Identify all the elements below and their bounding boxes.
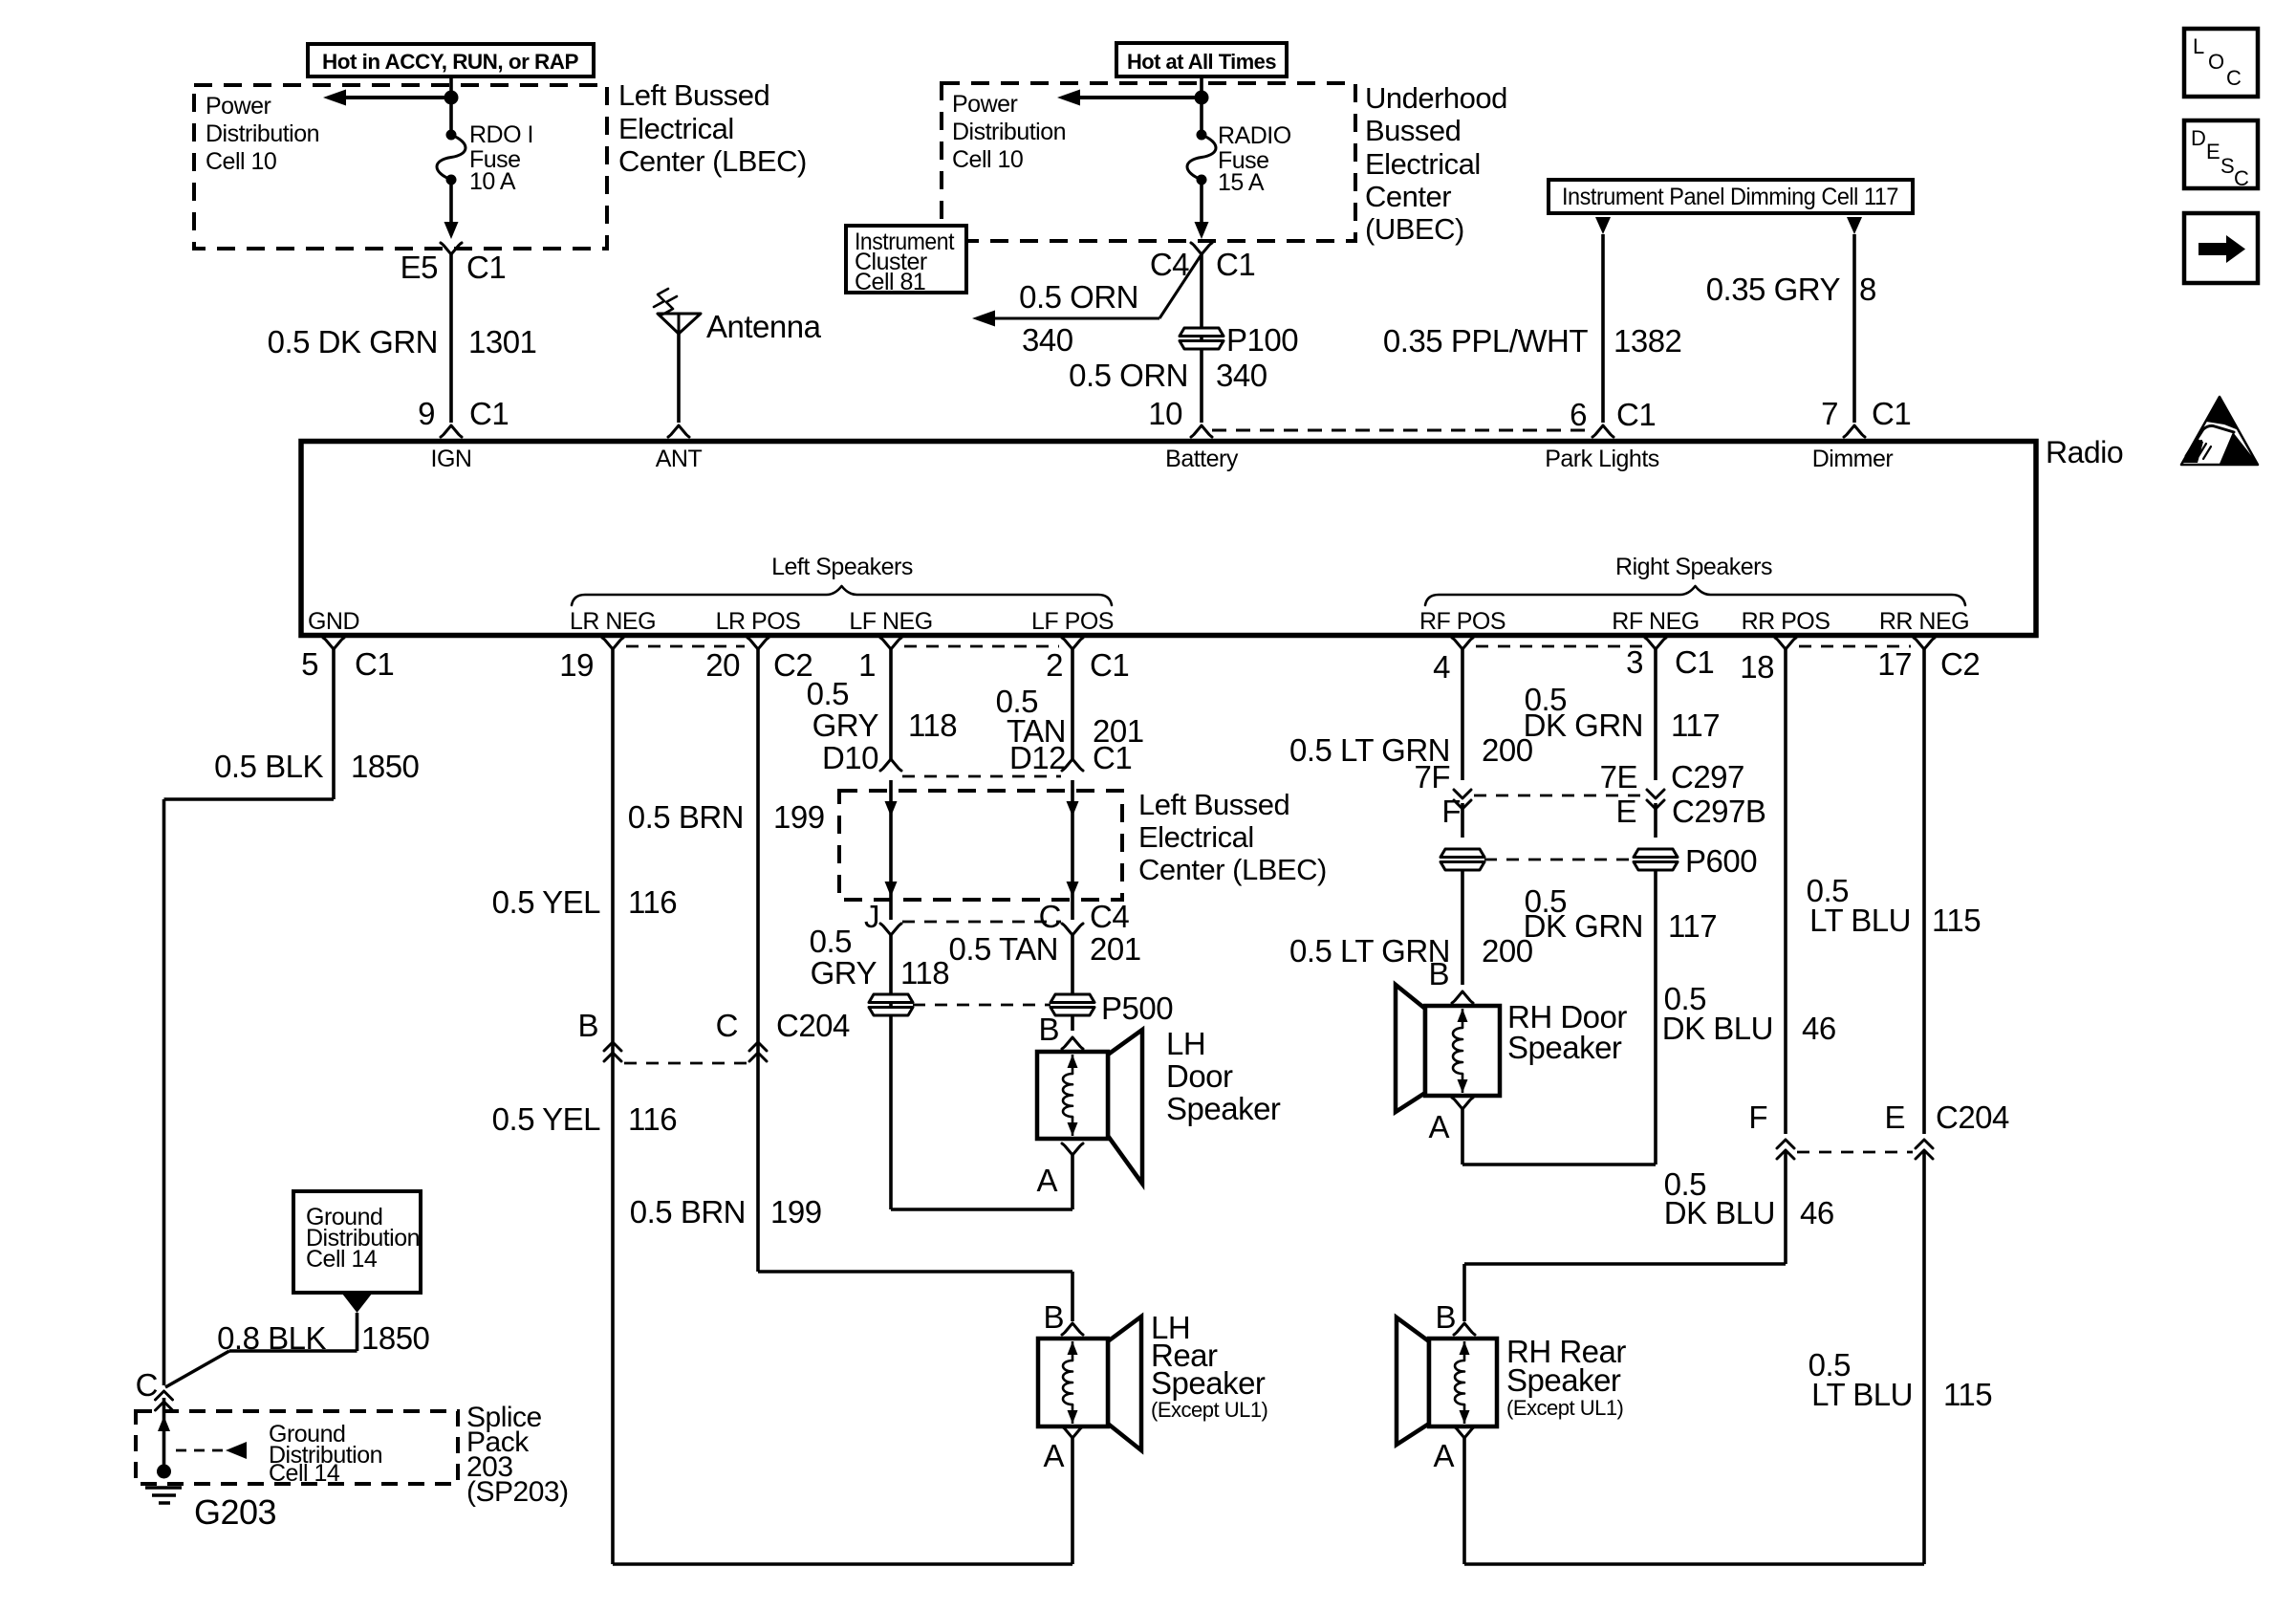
svg-text:C: C <box>136 1367 158 1403</box>
svg-text:Radio: Radio <box>2046 435 2123 469</box>
svg-text:C4: C4 <box>1150 247 1189 282</box>
svg-text:0.5: 0.5 <box>807 676 849 711</box>
svg-text:Center: Center <box>1365 180 1451 213</box>
svg-text:Distribution: Distribution <box>952 119 1066 145</box>
svg-text:C1: C1 <box>466 250 506 285</box>
svg-text:RR POS: RR POS <box>1742 608 1830 635</box>
svg-text:C1: C1 <box>1675 644 1714 680</box>
svg-text:Left Bussed: Left Bussed <box>1138 788 1289 821</box>
svg-text:17: 17 <box>1877 646 1912 682</box>
svg-text:Right Speakers: Right Speakers <box>1615 554 1772 580</box>
svg-text:Center (LBEC): Center (LBEC) <box>618 144 807 178</box>
svg-text:C1: C1 <box>1616 397 1656 432</box>
svg-text:Speaker: Speaker <box>1166 1091 1281 1126</box>
svg-text:Power: Power <box>206 93 271 120</box>
svg-text:6: 6 <box>1570 397 1587 432</box>
svg-text:IGN: IGN <box>431 446 472 472</box>
svg-text:DK BLU: DK BLU <box>1662 1011 1773 1046</box>
svg-text:Battery: Battery <box>1165 446 1239 472</box>
svg-text:C2: C2 <box>1940 646 1980 682</box>
svg-text:Power: Power <box>952 91 1018 118</box>
svg-text:116: 116 <box>628 1101 677 1137</box>
svg-text:F: F <box>1748 1099 1767 1135</box>
svg-text:1301: 1301 <box>468 324 536 359</box>
svg-text:A: A <box>1036 1163 1057 1198</box>
svg-text:C: C <box>2234 166 2249 190</box>
svg-text:0.5 YEL: 0.5 YEL <box>492 884 600 920</box>
svg-text:2: 2 <box>1046 647 1063 683</box>
svg-text:A: A <box>1043 1438 1064 1473</box>
svg-text:0.5 ORN: 0.5 ORN <box>1069 358 1188 393</box>
svg-text:Electrical: Electrical <box>1365 147 1481 181</box>
svg-text:GND: GND <box>308 608 359 635</box>
svg-text:Cell 14: Cell 14 <box>306 1246 378 1273</box>
svg-text:RR NEG: RR NEG <box>1879 608 1969 635</box>
svg-text:340: 340 <box>1022 322 1073 358</box>
svg-text:RADIO: RADIO <box>1218 122 1291 149</box>
svg-text:46: 46 <box>1802 1011 1836 1046</box>
svg-text:C1: C1 <box>1216 247 1255 282</box>
svg-text:DK BLU: DK BLU <box>1664 1195 1775 1230</box>
svg-text:GRY: GRY <box>812 708 879 743</box>
svg-text:C297B: C297B <box>1672 794 1765 829</box>
svg-text:C1: C1 <box>1093 740 1132 775</box>
svg-text:GRY: GRY <box>811 955 877 991</box>
svg-text:LT BLU: LT BLU <box>1811 1377 1913 1412</box>
svg-text:0.8 BLK: 0.8 BLK <box>217 1320 326 1356</box>
svg-text:Bussed: Bussed <box>1365 114 1461 147</box>
svg-text:(UBEC): (UBEC) <box>1365 212 1464 246</box>
svg-text:RF POS: RF POS <box>1419 608 1505 635</box>
svg-text:Antenna: Antenna <box>706 309 822 344</box>
svg-text:0.5 BRN: 0.5 BRN <box>630 1194 746 1230</box>
svg-text:200: 200 <box>1482 933 1533 969</box>
svg-text:19: 19 <box>559 647 594 683</box>
svg-text:Electrical: Electrical <box>618 112 734 145</box>
svg-text:O: O <box>2208 50 2224 74</box>
svg-text:B: B <box>577 1008 598 1043</box>
svg-text:C1: C1 <box>1872 396 1911 431</box>
svg-text:(SP203): (SP203) <box>466 1476 569 1508</box>
svg-text:1850: 1850 <box>351 749 420 784</box>
svg-text:B: B <box>1038 1012 1059 1047</box>
svg-text:0.5: 0.5 <box>810 924 852 959</box>
svg-text:ANT: ANT <box>656 446 703 472</box>
svg-text:115: 115 <box>1932 903 1981 938</box>
svg-text:B: B <box>1428 956 1449 991</box>
svg-text:LF NEG: LF NEG <box>849 608 932 635</box>
svg-text:DK GRN: DK GRN <box>1524 908 1643 944</box>
svg-text:199: 199 <box>773 799 825 835</box>
svg-text:LR NEG: LR NEG <box>570 608 656 635</box>
svg-text:0.5 YEL: 0.5 YEL <box>492 1101 600 1137</box>
svg-text:0.5 BRN: 0.5 BRN <box>628 799 744 835</box>
svg-text:200: 200 <box>1482 732 1533 768</box>
svg-text:0.35 GRY: 0.35 GRY <box>1706 272 1841 307</box>
svg-text:116: 116 <box>628 884 677 920</box>
svg-text:199: 199 <box>770 1194 822 1230</box>
svg-text:1850: 1850 <box>361 1320 430 1356</box>
svg-text:46: 46 <box>1800 1195 1834 1230</box>
svg-text:8: 8 <box>1859 272 1876 307</box>
svg-text:(Except UL1): (Except UL1) <box>1506 1396 1623 1420</box>
svg-text:Instrument Panel Dimming Cell: Instrument Panel Dimming Cell 117 <box>1562 184 1898 210</box>
svg-text:9: 9 <box>418 396 435 431</box>
svg-text:0.5 ORN: 0.5 ORN <box>1019 279 1138 315</box>
svg-text:Hot in ACCY, RUN, or RAP: Hot in ACCY, RUN, or RAP <box>322 50 578 74</box>
svg-text:G203: G203 <box>194 1492 276 1532</box>
svg-text:C: C <box>1039 899 1061 934</box>
svg-text:Speaker: Speaker <box>1151 1365 1266 1401</box>
svg-text:0.5 TAN: 0.5 TAN <box>949 931 1059 967</box>
svg-text:3: 3 <box>1626 644 1643 680</box>
svg-text:340: 340 <box>1216 358 1267 393</box>
svg-text:E: E <box>2206 140 2220 163</box>
svg-text:117: 117 <box>1671 708 1720 743</box>
svg-text:Electrical: Electrical <box>1138 820 1254 854</box>
svg-text:B: B <box>1043 1299 1064 1335</box>
svg-text:J: J <box>864 899 879 934</box>
svg-text:0.5 BLK: 0.5 BLK <box>214 749 323 784</box>
svg-text:Cell 14: Cell 14 <box>269 1460 340 1487</box>
svg-text:C204: C204 <box>776 1008 850 1043</box>
svg-text:C1: C1 <box>355 646 394 682</box>
svg-text:0.5 DK GRN: 0.5 DK GRN <box>268 324 438 359</box>
svg-text:C204: C204 <box>1936 1099 2009 1135</box>
svg-text:118: 118 <box>908 708 957 743</box>
svg-text:10: 10 <box>1148 396 1182 431</box>
svg-text:D: D <box>2191 126 2205 150</box>
svg-text:118: 118 <box>900 955 949 991</box>
svg-text:P600: P600 <box>1685 843 1757 879</box>
svg-text:LF POS: LF POS <box>1031 608 1114 635</box>
svg-text:7E: 7E <box>1600 759 1637 795</box>
svg-text:D10: D10 <box>822 740 878 775</box>
svg-text:Left Bussed: Left Bussed <box>618 78 769 112</box>
svg-text:LR POS: LR POS <box>716 608 801 635</box>
svg-text:L: L <box>2193 34 2204 58</box>
svg-text:Distribution: Distribution <box>206 120 319 147</box>
svg-text:C4: C4 <box>1090 899 1129 934</box>
svg-text:Speaker: Speaker <box>1506 1362 1621 1398</box>
svg-text:Dimmer: Dimmer <box>1812 446 1894 472</box>
svg-text:E: E <box>1615 794 1636 829</box>
svg-text:0.35 PPL/WHT: 0.35 PPL/WHT <box>1383 323 1588 359</box>
svg-text:E: E <box>1884 1099 1905 1135</box>
svg-text:RDO I: RDO I <box>469 121 533 148</box>
svg-text:Cell 10: Cell 10 <box>206 148 276 175</box>
svg-text:117: 117 <box>1668 908 1717 944</box>
svg-text:1: 1 <box>858 647 876 683</box>
svg-text:1382: 1382 <box>1614 323 1681 359</box>
svg-text:10 A: 10 A <box>469 168 516 195</box>
svg-text:F: F <box>1441 794 1461 829</box>
svg-text:20: 20 <box>705 647 740 683</box>
svg-text:Center (LBEC): Center (LBEC) <box>1138 853 1327 886</box>
svg-text:Cell 81: Cell 81 <box>855 269 925 295</box>
svg-text:D12: D12 <box>1009 740 1066 775</box>
svg-text:Left Speakers: Left Speakers <box>771 554 913 580</box>
svg-text:A: A <box>1428 1109 1449 1144</box>
svg-text:S: S <box>2220 154 2234 178</box>
svg-text:Underhood: Underhood <box>1365 81 1507 115</box>
svg-text:18: 18 <box>1740 649 1774 685</box>
svg-text:4: 4 <box>1433 649 1450 685</box>
svg-text:LH: LH <box>1166 1026 1205 1061</box>
svg-text:Speaker: Speaker <box>1507 1030 1622 1065</box>
svg-text:Park Lights: Park Lights <box>1545 446 1659 472</box>
svg-text:C1: C1 <box>469 396 509 431</box>
svg-text:RF NEG: RF NEG <box>1612 608 1699 635</box>
svg-text:115: 115 <box>1943 1377 1992 1412</box>
svg-text:P100: P100 <box>1226 322 1298 358</box>
svg-text:LT BLU: LT BLU <box>1809 903 1911 938</box>
svg-text:Door: Door <box>1166 1058 1233 1094</box>
svg-text:B: B <box>1435 1299 1456 1335</box>
svg-text:201: 201 <box>1090 931 1141 967</box>
svg-text:C: C <box>716 1008 738 1043</box>
svg-text:A: A <box>1433 1438 1454 1473</box>
svg-text:DK GRN: DK GRN <box>1524 708 1643 743</box>
svg-text:0.5 LT GRN: 0.5 LT GRN <box>1289 933 1450 969</box>
svg-text:C297: C297 <box>1671 759 1744 795</box>
svg-text:C1: C1 <box>1090 647 1129 683</box>
svg-text:E5: E5 <box>401 250 438 285</box>
svg-text:15 A: 15 A <box>1218 169 1265 196</box>
svg-text:5: 5 <box>301 646 318 682</box>
svg-text:C: C <box>2226 66 2242 90</box>
svg-text:Hot at All Times: Hot at All Times <box>1127 50 1276 74</box>
svg-text:P500: P500 <box>1101 991 1173 1026</box>
svg-text:(Except UL1): (Except UL1) <box>1151 1398 1267 1422</box>
svg-text:7F: 7F <box>1414 759 1450 795</box>
svg-text:Cell 10: Cell 10 <box>952 146 1023 173</box>
svg-text:7: 7 <box>1821 396 1838 431</box>
